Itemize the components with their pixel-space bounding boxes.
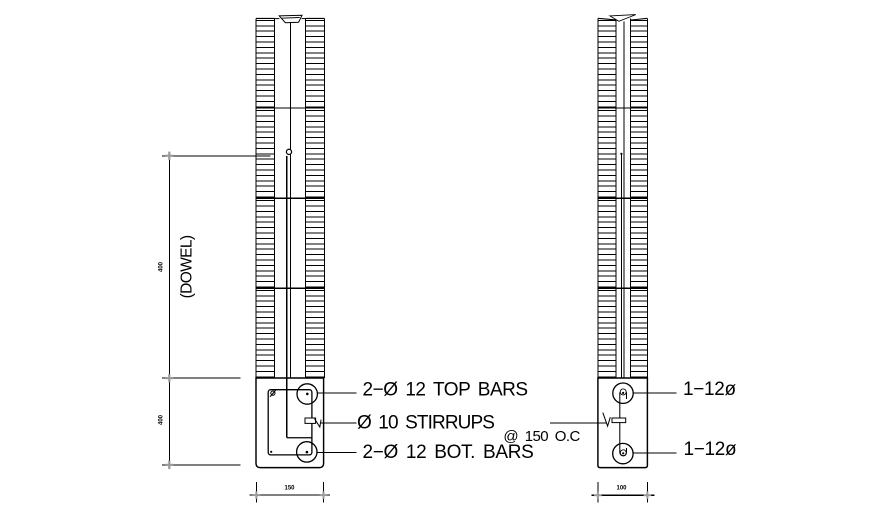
svg-text:Ø 10 STIRRUPS: Ø 10 STIRRUPS (357, 412, 494, 433)
svg-text:2−Ø 12 TOP BARS: 2−Ø 12 TOP BARS (363, 379, 528, 400)
svg-text:400: 400 (159, 261, 165, 272)
svg-text:@ 150 O.C: @ 150 O.C (503, 428, 580, 445)
svg-text:2−Ø 12 BOT. BARS: 2−Ø 12 BOT. BARS (363, 442, 534, 463)
svg-text:1−12ø: 1−12ø (683, 379, 736, 400)
svg-text:(DOWEL): (DOWEL) (179, 235, 196, 298)
svg-text:400: 400 (159, 414, 165, 425)
svg-text:150: 150 (284, 485, 295, 491)
svg-text:1−12ø: 1−12ø (684, 439, 737, 460)
svg-text:100: 100 (616, 486, 627, 492)
